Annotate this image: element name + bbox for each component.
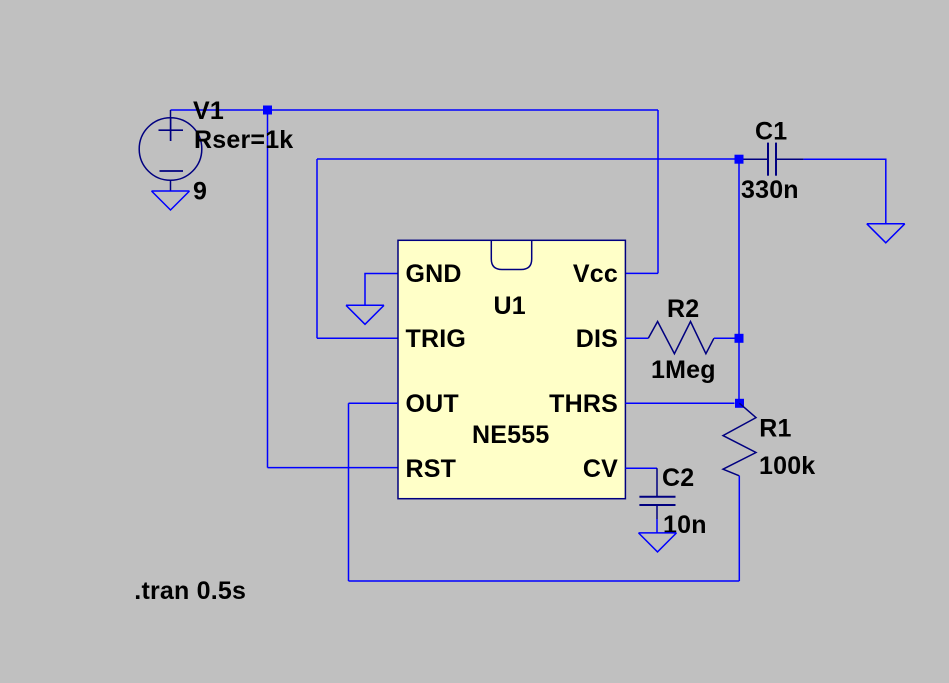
wire RST pin horizontal [268, 467, 399, 469]
ground at GND pin [346, 305, 384, 324]
node junction R2/DIS [735, 334, 744, 343]
svg-text:Vcc: Vcc [573, 260, 618, 288]
wire TRIG vertical [316, 159, 318, 338]
ground at C2 [639, 533, 677, 552]
resistor R1 [723, 403, 756, 476]
svg-text:TRIG: TRIG [406, 325, 467, 353]
node junction THRS [735, 399, 744, 408]
svg-text:R2: R2 [667, 295, 699, 323]
svg-text:330n: 330n [741, 176, 799, 204]
wire C2 to ground [656, 519, 658, 533]
wire R2 to junction [714, 337, 735, 339]
svg-text:GND: GND [406, 260, 462, 288]
voltage source V1 [139, 110, 202, 191]
svg-text:V1: V1 [193, 97, 224, 125]
svg-text:NE555: NE555 [472, 421, 549, 449]
wire Vcc vertical drop [657, 110, 659, 273]
svg-text:CV: CV [583, 455, 618, 483]
wire right bus vertical [738, 163, 740, 403]
capacitor C1 [744, 143, 804, 176]
svg-text:U1: U1 [494, 292, 526, 320]
resistor R2 [648, 322, 714, 354]
wire GND pin stub [365, 274, 398, 306]
wire OUT pin stub [349, 402, 399, 404]
svg-text:THRS: THRS [549, 390, 618, 418]
svg-text:1Meg: 1Meg [651, 356, 716, 384]
svg-text:C1: C1 [755, 117, 787, 145]
wire DIS pin stub [625, 337, 648, 339]
node junction TRIG/C1 [735, 155, 744, 164]
svg-text:OUT: OUT [406, 390, 459, 418]
wire RST branch vertical [267, 110, 269, 468]
wire OUT vertical [348, 403, 350, 581]
wire bottom feedback [349, 580, 740, 582]
wire CV pin stub [625, 467, 657, 469]
wire R1 bottom [738, 476, 740, 581]
svg-text:C2: C2 [662, 464, 694, 492]
svg-text:R1: R1 [759, 415, 791, 443]
svg-text:10n: 10n [663, 511, 707, 539]
svg-text:9: 9 [193, 178, 207, 206]
ground at V1 [152, 191, 190, 210]
node junction V1/RST branch [263, 106, 272, 115]
wire TRIG pin stub [317, 337, 398, 339]
ground at C1 [867, 224, 905, 243]
wire Vcc pin stub [625, 272, 658, 274]
wire C1 to ground [804, 159, 886, 224]
svg-text:Rser=1k: Rser=1k [194, 126, 293, 154]
svg-text:.tran 0.5s: .tran 0.5s [134, 577, 246, 605]
wire THRS pin [625, 402, 734, 404]
svg-text:DIS: DIS [576, 325, 618, 353]
capacitor C2 [639, 468, 675, 519]
wire TRIG node horizontal [317, 158, 735, 160]
wire top rail V1 to Vcc branch [171, 109, 659, 111]
op-amp/IC U1 NE555 body [398, 240, 625, 498]
svg-text:RST: RST [406, 455, 457, 483]
svg-text:100k: 100k [759, 452, 815, 480]
